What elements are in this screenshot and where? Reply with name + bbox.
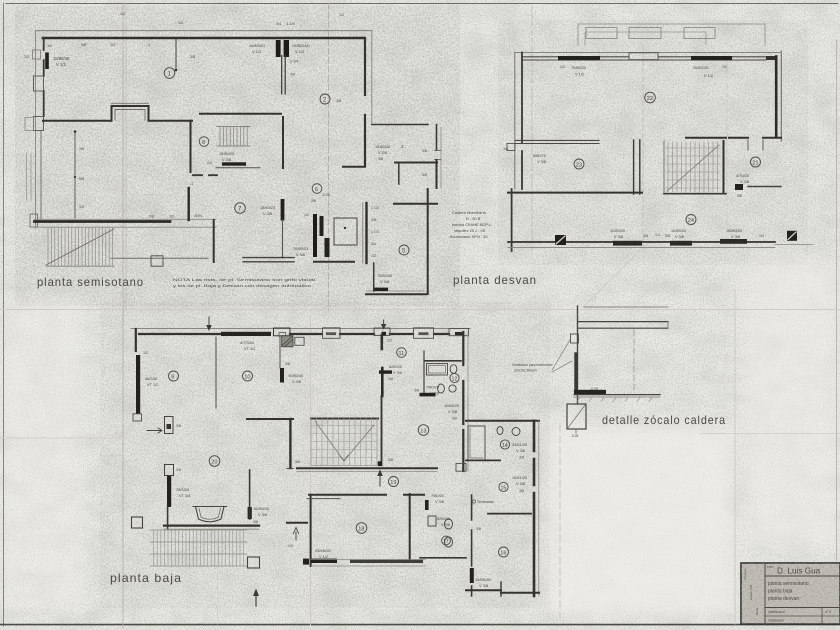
stair desvan diagonal (667, 145, 719, 191)
wall stub vertical near room7 bottom (187, 188, 189, 220)
bath17 toilet (445, 519, 453, 529)
svg-text:V 3/8: V 3/8 (258, 512, 267, 517)
svg-text:-1: -1 (190, 182, 193, 186)
dashed vertical near stair desvan (726, 60, 728, 250)
vertical crease through baja (310, 315, 312, 625)
black square left of bar (303, 559, 309, 565)
room18 bottom window bar (350, 560, 423, 563)
svg-text:3/8: 3/8 (378, 157, 383, 161)
sheet border left (3, 3, 5, 626)
dark bar porch left (167, 476, 171, 507)
pipe shaft wall (365, 203, 367, 263)
window bar 3 top right (dark) (766, 56, 777, 60)
lighter paper left margin (0, 300, 85, 610)
porch right wall (249, 470, 251, 519)
horizontal fold crease mid sheet (0, 309, 840, 311)
column square left (132, 517, 143, 528)
bath12 sink (449, 385, 456, 392)
room14 top wall (466, 420, 539, 422)
left outer contour (35, 31, 37, 228)
column square right (248, 557, 260, 568)
svg-text:6/90/20: 6/90/20 (437, 516, 451, 521)
svg-text:3/8: 3/8 (176, 468, 181, 472)
lower wall segment right (243, 258, 294, 262)
top wall segments (139, 333, 449, 335)
svg-text:1 1/2: 1 1/2 (371, 230, 379, 234)
svg-text:Ventilacion para incinerador: Ventilacion para incinerador (512, 363, 554, 367)
stair desvan bottom wall (664, 193, 726, 195)
riser drop room1 (175, 39, 177, 70)
heavier scan texture over top-left plan region (15, 6, 460, 306)
bath17 left wall (409, 494, 411, 559)
svg-text:26/80/20: 26/80/20 (727, 228, 743, 233)
svg-text:planta baja: planta baja (768, 589, 793, 595)
radiator room16 (470, 568, 474, 583)
dimension loop inner (585, 32, 706, 45)
svg-text:V 3/8: V 3/8 (731, 234, 740, 239)
svg-text:3/8: 3/8 (290, 73, 295, 77)
vertical axis line left (double pencil line) (122, 3, 124, 628)
svg-text:1/2: 1/2 (293, 36, 298, 40)
svg-text:1/2: 1/2 (169, 215, 174, 219)
bottom wall room21 (748, 186, 781, 188)
bump outer thin top (112, 102, 149, 104)
svg-text:56/33A: 56/33A (145, 376, 158, 381)
svg-text:instalacion: instalacion (768, 619, 784, 623)
svg-text:V 1/2: V 1/2 (575, 72, 584, 77)
dark bar bath12 bottom (420, 393, 436, 397)
floor lines (574, 394, 660, 396)
bath12 top wall (425, 360, 461, 362)
svg-text:-0.00: -0.00 (322, 193, 330, 197)
detail ceiling double wall (578, 322, 668, 329)
wall right of 13 (segments) (462, 332, 464, 471)
room3 right wall upper (436, 125, 438, 151)
bottom wall room13 (297, 467, 437, 469)
svg-text:detalle zócalo caldera: detalle zócalo caldera (602, 413, 726, 427)
svg-text:V 3/8: V 3/8 (292, 379, 301, 384)
leader lines (552, 340, 572, 372)
svg-text:9: 9 (171, 374, 174, 380)
svg-text:1 1/2: 1 1/2 (371, 206, 379, 210)
arrow to fixture (147, 428, 162, 433)
bath17 bidet (445, 537, 453, 547)
svg-text:8/80/70: 8/80/70 (533, 153, 547, 158)
svg-text:70/80/23: 70/80/23 (293, 246, 308, 251)
room circle 12 (450, 373, 459, 382)
svg-text:70/80/40: 70/80/40 (377, 273, 393, 278)
svg-text:78/33/4: 78/33/4 (176, 487, 190, 492)
svg-text:6: 6 (315, 187, 318, 193)
top outer contour (131, 328, 470, 330)
detail top line (584, 306, 668, 308)
window bar bottom 3 (720, 239, 747, 244)
window bar bottom 1 (613, 241, 642, 246)
room23 bottom wall (508, 192, 642, 194)
svg-text:3/8: 3/8 (81, 43, 86, 47)
fold dashed vertical between baja and detail (559, 425, 561, 618)
svg-text:1-2: 1-2 (655, 233, 660, 237)
room circle 14 (500, 440, 509, 449)
bottom rule line (0, 624, 840, 626)
title block texture (741, 563, 840, 624)
dimension box 3 (684, 28, 715, 39)
bottom-left notch (30, 214, 38, 227)
vertical axis desvan mid (642, 45, 644, 250)
svg-text:4/70/20: 4/70/20 (736, 173, 750, 178)
svg-text:1-1/4: 1-1/4 (290, 60, 298, 64)
svg-text:70/80/20: 70/80/20 (571, 65, 587, 70)
svg-text:24: 24 (688, 218, 694, 224)
room circle 22 (645, 92, 656, 103)
svg-text:15: 15 (501, 485, 507, 491)
lighter clean paper bottom-right of baja (548, 425, 733, 615)
left wall top piece (135, 329, 137, 351)
lower outline terrace (111, 257, 208, 259)
opening ticks (748, 140, 763, 150)
wall rooms 3/4 divider (395, 162, 437, 164)
stair landing line (216, 167, 260, 169)
sheet border top (6, 3, 838, 5)
svg-text:-0.00: -0.00 (590, 387, 598, 391)
svg-text:4/7/33/4: 4/7/33/4 (240, 340, 255, 345)
room14 tub (468, 426, 485, 460)
svg-text:1/2: 1/2 (79, 205, 84, 209)
svg-text:3/4½: 3/4½ (194, 214, 202, 218)
short crease left (0, 437, 127, 439)
svg-text:60/80/20: 60/80/20 (254, 506, 270, 511)
bath17 bottom wall (420, 557, 466, 559)
wall below shaft (373, 263, 375, 291)
exterior stair hatch baja (154, 530, 244, 566)
interior stair horizontals (311, 426, 377, 458)
svg-text:1/2: 1/2 (387, 339, 392, 343)
small box right of chimney (295, 337, 304, 345)
stair desvan left line (663, 141, 665, 194)
svg-text:1/2: 1/2 (339, 13, 344, 17)
room circle 20 (209, 456, 220, 467)
room18 left wall (310, 495, 312, 566)
corner dark fill top right (449, 329, 469, 336)
dimension loop outer (578, 24, 765, 45)
svg-text:1/2: 1/2 (288, 544, 293, 548)
bump inner line (115, 110, 145, 121)
texture over desvan plan (498, 20, 808, 265)
svg-text:21: 21 (752, 160, 758, 166)
svg-text:planta desvan: planta desvan (768, 596, 799, 602)
divider 14/15 (466, 459, 500, 461)
room13 left wall dark (381, 368, 384, 396)
radiator room1 (dark bar) (45, 53, 49, 70)
room circle 24 (686, 215, 696, 225)
planter bowl (193, 507, 227, 522)
left column divider (764, 563, 766, 624)
title block shaded body (741, 563, 840, 624)
room circle 6 (312, 184, 322, 194)
svg-text:3/8: 3/8 (371, 218, 376, 222)
left wall segments with window gaps (43, 38, 45, 116)
svg-text:14: 14 (502, 443, 508, 449)
room4 bottom wall (394, 203, 437, 205)
svg-text:Acumulador SPN - 50: Acumulador SPN - 50 (450, 234, 488, 239)
boiler equipment dark blobs (313, 214, 317, 257)
exterior stairs hatch (48, 228, 113, 267)
window box top right (414, 328, 434, 339)
room circle 7 (235, 203, 246, 214)
lower section lines (765, 607, 840, 609)
svg-text:34/61/20: 34/61/20 (512, 442, 528, 447)
svg-text:18: 18 (358, 526, 364, 532)
svg-text:Caldera Hidrotherm: Caldera Hidrotherm (452, 210, 486, 215)
bath17 radiator (425, 500, 429, 510)
svg-text:5/8: 5/8 (79, 177, 84, 181)
svg-text:12/80/20: 12/80/20 (610, 228, 626, 233)
svg-text:3/8: 3/8 (149, 215, 154, 219)
window box above chimney (274, 328, 291, 336)
svg-text:3/8: 3/8 (388, 377, 393, 381)
svg-text:-0.25: -0.25 (571, 434, 578, 438)
porch right dark bar (248, 507, 252, 519)
svg-text:23: 23 (576, 162, 582, 168)
svg-text:V 1/2: V 1/2 (704, 73, 713, 78)
bath12 left wall (423, 351, 425, 394)
interior stair direction marker (315, 421, 374, 461)
svg-text:3/8: 3/8 (285, 362, 290, 366)
faint horizontal right (700, 433, 840, 435)
wall stub below chimney (279, 336, 281, 368)
detail vertical wall (577, 306, 579, 403)
boiler room bottom wall (314, 261, 354, 263)
small box on lower outline (151, 256, 163, 266)
svg-text:1/2: 1/2 (560, 65, 565, 69)
svg-text:planta desvan: planta desvan (453, 273, 537, 287)
T pier wall (374, 328, 390, 336)
room3 top wall (372, 124, 428, 126)
svg-text:V 3/8: V 3/8 (479, 583, 488, 588)
vertical axis desvan left (531, 6, 533, 255)
window bar 2 top (dark) (691, 56, 732, 60)
svg-text:3/8: 3/8 (452, 417, 457, 421)
room circle 2 (320, 94, 330, 104)
fixture box room20 (165, 465, 174, 476)
bath12 toilet (438, 384, 445, 393)
svg-text:escala 1:50: escala 1:50 (749, 584, 753, 600)
wall room23 right (double) (634, 140, 640, 194)
window bar 1 top (dark) (558, 56, 600, 60)
svg-text:VT 1/2: VT 1/2 (147, 382, 158, 387)
svg-text:(20x15) 300cm²: (20x15) 300cm² (514, 369, 538, 373)
svg-text:12: 12 (452, 376, 458, 382)
svg-text:nº 3: nº 3 (825, 610, 831, 614)
svg-text:planta semisotano: planta semisotano (37, 275, 144, 289)
svg-text:15/80/20: 15/80/20 (375, 144, 391, 149)
stair sill dark bar (222, 162, 246, 165)
svg-text:3/8: 3/8 (176, 424, 181, 428)
svg-text:fecha: fecha (755, 607, 759, 615)
svg-text:V 3/8: V 3/8 (435, 499, 444, 504)
window box plain top (629, 53, 658, 60)
top wall (thick) (43, 37, 364, 40)
room2 right wall (364, 38, 366, 165)
svg-text:1/2: 1/2 (722, 65, 727, 69)
room3 window gap ticks (435, 151, 442, 160)
svg-text:D. Luis Gua: D. Luis Gua (777, 567, 821, 576)
stair area top wall (200, 113, 281, 115)
svg-text:8: 8 (202, 140, 205, 146)
svg-text:3/8: 3/8 (253, 520, 258, 524)
window box top mid (323, 328, 341, 339)
interior stair verticals (317, 418, 372, 466)
room circle 19 (389, 477, 399, 487)
black square right (787, 231, 797, 241)
svg-text:11: 11 (399, 351, 405, 357)
svg-text:planta baja: planta baja (110, 571, 182, 585)
wall right mid with opening (729, 137, 781, 139)
texture over baja plan (100, 302, 550, 608)
svg-text:16: 16 (500, 550, 506, 556)
svg-text:1/2: 1/2 (371, 254, 376, 258)
svg-text:V 3/8: V 3/8 (675, 234, 684, 239)
bottom wall main (dark) (35, 220, 171, 223)
svg-text:22: 22 (647, 96, 653, 102)
dark wall segment rooms 6 boundary (281, 199, 285, 221)
svg-text:V 3/8: V 3/8 (296, 252, 305, 257)
svg-text:V 3/8: V 3/8 (740, 179, 749, 184)
svg-text:3/8: 3/8 (665, 234, 670, 238)
small square on wall (571, 334, 579, 343)
bath12 tub (427, 364, 448, 375)
svg-text:15/60/40: 15/60/40 (249, 43, 265, 48)
svg-text:V 1/2: V 1/2 (295, 49, 305, 54)
svg-text:V 3/8: V 3/8 (380, 279, 389, 284)
svg-text:1/2: 1/2 (24, 55, 29, 59)
svg-text:V 3/8: V 3/8 (441, 522, 450, 527)
svg-text:V 3/8: V 3/8 (537, 159, 546, 164)
svg-text:V 1/2: V 1/2 (319, 554, 328, 559)
svg-text:3/8: 3/8 (476, 527, 481, 531)
top wall double lines (522, 57, 766, 60)
room16 bottom walls (466, 589, 501, 591)
svg-text:R - 90 B: R - 90 B (466, 216, 481, 221)
svg-text:15/6N/40: 15/6N/40 (475, 577, 492, 582)
svg-text:V 3/8: V 3/8 (516, 481, 525, 486)
svg-text:1/2: 1/2 (304, 213, 309, 217)
svg-text:7/80/20: 7/80/20 (426, 385, 440, 390)
svg-text:3/8: 3/8 (422, 173, 427, 177)
svg-text:y los de pl. Baja y Desv: y los de pl. Baja y Desvan con desagen a… (173, 283, 312, 288)
room7 top wall with chimney bump (43, 106, 192, 121)
svg-text:NOTA Las rists. de pl. Se: NOTA Las rists. de pl. Semisotano son gr… (173, 277, 315, 282)
sheet border right faint (836, 40, 838, 560)
room13 left wall lower (381, 396, 383, 465)
svg-text:3/8: 3/8 (388, 458, 393, 462)
svg-text:13: 13 (420, 428, 426, 434)
wall rooms10/20 divider (247, 418, 378, 421)
svg-text:1/2: 1/2 (47, 44, 52, 48)
svg-text:3/8: 3/8 (519, 456, 524, 460)
svg-text:15/61/20: 15/61/20 (512, 475, 528, 480)
window bar room11 (379, 370, 392, 373)
bath17 sink (428, 516, 436, 526)
svg-text:V 3/8: V 3/8 (448, 409, 457, 414)
room18 bottom thin lines (311, 560, 425, 566)
room14 sink (512, 428, 520, 436)
lower right wall step (213, 220, 215, 262)
diagonal crease center (583, 251, 640, 307)
bath12 toilet upper (450, 365, 457, 374)
svg-text:V 3/8: V 3/8 (222, 157, 231, 162)
bottom wall thin extension right (775, 244, 813, 246)
svg-text:3/4: 3/4 (276, 22, 281, 26)
left window tick (507, 144, 515, 151)
radiator room10 right (280, 368, 284, 383)
header underline (765, 575, 840, 577)
svg-text:3/8: 3/8 (336, 99, 341, 103)
room circle 11 (397, 348, 407, 358)
arrow below wall piece (293, 528, 298, 541)
black glyph square left (555, 235, 566, 245)
svg-text:Termostato: Termostato (477, 500, 494, 504)
svg-text:3/8: 3/8 (79, 147, 84, 151)
room5 right wall (427, 189, 429, 294)
interior stair boundary (311, 418, 377, 466)
svg-text:V 1/2: V 1/2 (252, 49, 262, 54)
room4 left wall (398, 163, 400, 185)
svg-text:7/80/20: 7/80/20 (431, 493, 445, 498)
boiler box (567, 404, 586, 429)
bottom wall thin double lines (508, 242, 775, 248)
divider 15/16 (488, 513, 531, 515)
svg-text:26/80/20: 26/80/20 (693, 65, 709, 70)
svg-text:15/60/23: 15/60/23 (260, 205, 275, 210)
outer window lines left (27, 153, 32, 200)
room18 top-right wall piece (307, 498, 340, 500)
svg-text:proyecto: proyecto (743, 568, 747, 580)
room circle 13 (418, 425, 429, 436)
svg-text:Vasoflex 25 J - 05: Vasoflex 25 J - 05 (454, 228, 485, 233)
stair 8 grid (217, 127, 250, 147)
svg-text:3/4: 3/4 (371, 242, 376, 246)
svg-text:VT 1/2: VT 1/2 (244, 346, 255, 351)
right outer contour (538, 421, 540, 596)
svg-text:V 3/8: V 3/8 (393, 370, 402, 375)
svg-text:10: 10 (244, 374, 250, 380)
entrance arrow top (208, 317, 210, 326)
rooms right wall with openings (533, 421, 536, 596)
svg-text:19: 19 (390, 480, 396, 486)
window box 1 left wall (33, 50, 41, 59)
left lower wall terrace (511, 189, 513, 251)
window box 3 left wall (34, 117, 44, 131)
svg-text:VT 3/8: VT 3/8 (179, 493, 190, 498)
arrow room19 (379, 474, 381, 486)
top outer contour (515, 51, 781, 53)
top outer contour line (36, 30, 373, 32)
svg-text:3/8: 3/8 (422, 149, 427, 153)
svg-text:17: 17 (443, 539, 449, 545)
fixture box room9 (165, 417, 174, 434)
svg-text:25/4N/20: 25/4N/20 (315, 548, 332, 553)
room circle 18 (356, 523, 367, 534)
entrance arrow bottom (255, 594, 257, 606)
ground hatch ticks (577, 398, 652, 402)
svg-text:V 1/2: V 1/2 (56, 62, 66, 67)
vertical axis semisotano (328, 3, 330, 310)
room circle 1 (164, 68, 175, 79)
svg-text:10/80/20: 10/80/20 (444, 403, 460, 408)
svg-text:V 3/8: V 3/8 (614, 234, 623, 239)
svg-text:20: 20 (211, 459, 217, 465)
